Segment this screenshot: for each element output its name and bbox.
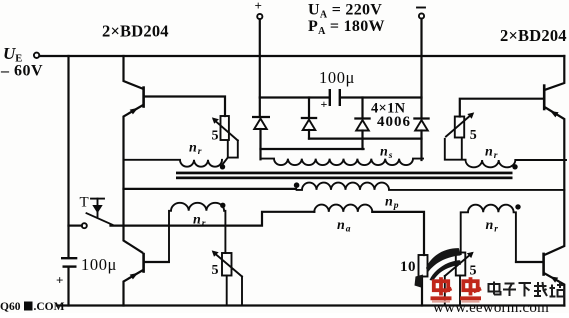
winding W4 bottom-left nr <box>169 203 225 262</box>
transistor Q3 emitter wire <box>124 271 143 306</box>
svg-text:100μ: 100μ <box>319 68 355 87</box>
wire D1 bottom to D3 bottom <box>261 148 364 150</box>
svg-text:5: 5 <box>212 129 219 144</box>
capacitor C1 plates <box>329 89 331 106</box>
winding np <box>297 183 565 190</box>
wire minus terminal to D4 <box>420 19 422 119</box>
diode D1 <box>252 117 270 159</box>
wire to np <box>124 188 297 190</box>
capacitor C2 100u plates <box>61 257 77 259</box>
transistor Q3 bottom-left base bar <box>142 253 145 273</box>
svg-text:5: 5 <box>470 264 477 279</box>
transistor Q4 bottom-right base bar <box>542 253 545 276</box>
char dian <box>489 284 500 292</box>
capacitor C2 lower lead <box>67 267 69 306</box>
svg-text:100μ: 100μ <box>81 255 117 274</box>
wire top rail <box>40 55 565 57</box>
diode D4 <box>413 119 429 161</box>
wire R3 to bottom rail <box>421 277 423 306</box>
transistor Q2 base wire <box>460 99 544 117</box>
wire left drop from rail <box>67 56 69 258</box>
capacitor C1 wire right <box>341 96 422 98</box>
rheostat R1 top-left 5 <box>212 116 238 164</box>
svg-text:T: T <box>80 195 89 211</box>
transistor Q4 emitter wire <box>545 274 565 306</box>
transistor Q4 emitter arrow <box>550 276 558 282</box>
capacitor C1 100u wire left <box>260 96 329 98</box>
wire switch to na row <box>111 212 315 226</box>
minus terminal <box>417 7 425 9</box>
transistor Q4 base wire <box>516 261 543 263</box>
svg-text:Q60: Q60 <box>0 301 21 313</box>
rheostat R2 top-right 5 <box>445 112 474 159</box>
winding W1 top-left nr <box>124 160 223 167</box>
wire D2 to D4 bottoms <box>309 138 422 140</box>
junction dot W4 <box>220 203 225 208</box>
svg-text:4006: 4006 <box>377 114 411 130</box>
diode D3 <box>354 98 370 150</box>
junction dot W3 <box>512 164 517 169</box>
wire plus terminal to D1 <box>259 19 261 117</box>
transistor Q1 emitter wire <box>124 106 143 253</box>
transistor Q1 base wire <box>145 97 226 117</box>
svg-text:2×BD204: 2×BD204 <box>500 26 567 45</box>
diode D2 <box>301 98 317 139</box>
svg-text:+: + <box>255 0 262 13</box>
winding W5 bottom-right nr <box>461 205 516 262</box>
input terminal UE <box>34 53 39 58</box>
rheostat R5 bottom-right 5 <box>445 252 474 306</box>
watermark red chong chars <box>431 277 452 298</box>
transformer core <box>176 172 513 175</box>
svg-text:– 60V: – 60V <box>0 63 43 80</box>
transistor Q2 emitter wire <box>545 108 564 255</box>
switch contact circle <box>82 223 87 228</box>
winding W2 ns <box>261 159 424 166</box>
transistor Q2 emitter arrow <box>550 111 558 117</box>
wire to switch contact <box>69 225 82 227</box>
char zhan <box>551 285 553 297</box>
svg-text:.COM: .COM <box>34 301 65 313</box>
junction dot np <box>294 182 300 188</box>
switch T actuator <box>91 199 104 217</box>
transistor Q3 emitter arrow <box>130 273 139 280</box>
svg-text:10: 10 <box>400 259 416 275</box>
transistor Q2 base bar <box>543 84 546 110</box>
wire bottom rail <box>57 304 564 306</box>
winding na <box>314 205 372 212</box>
char zai <box>534 285 547 287</box>
transistor Q1 top-left collector wire <box>124 56 143 89</box>
svg-text:+: + <box>56 273 63 288</box>
svg-text:2×BD204: 2×BD204 <box>102 22 169 41</box>
rheostat R4 bottom-left 5 <box>212 250 242 305</box>
junction dot W5 <box>515 204 520 209</box>
svg-text:5: 5 <box>470 128 477 143</box>
junction dot W1 <box>220 164 225 169</box>
char zi <box>505 283 515 285</box>
switch lever <box>87 213 113 225</box>
transistor Q3 base wire <box>145 261 169 263</box>
watermark black brush <box>426 248 461 272</box>
char xia <box>519 282 532 284</box>
transistor Q1 base bar <box>142 86 145 108</box>
wire na to R3 <box>372 212 424 255</box>
resistor R3 10 <box>419 255 428 277</box>
transistor Q1 emitter arrow <box>130 108 139 115</box>
watermark dianzi xiazaizhan <box>489 282 565 297</box>
winding W3 top-right nr <box>466 160 567 167</box>
transistor Q2 top-right collector wire <box>545 56 564 90</box>
svg-text:5: 5 <box>212 263 219 278</box>
svg-text:+: + <box>321 97 328 111</box>
